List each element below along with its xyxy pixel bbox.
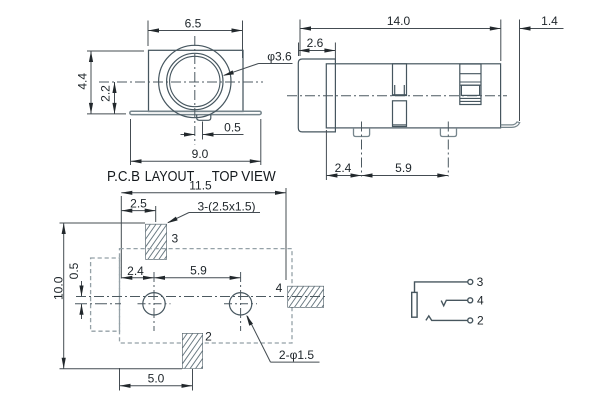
- svg-text:0.5: 0.5: [67, 262, 81, 279]
- svg-text:2.4: 2.4: [335, 161, 352, 175]
- side view: dim 14.0 extension lines: [299, 20, 301, 57]
- front view: dim 4.4 extension lines: [87, 50, 144, 52]
- pcb: hole centerline crosses: [138, 303, 171, 305]
- side view: pad centerlines: [361, 122, 363, 177]
- svg-text:VIEW: VIEW: [241, 169, 276, 185]
- side view: dim 2.6 extension lines: [298, 43, 300, 57]
- side view: lower contact slot: [393, 101, 407, 127]
- svg-text:2.4: 2.4: [127, 264, 144, 278]
- pcb: dim 11.5 extension lines: [120, 196, 122, 279]
- pcb: dim 5.0 extension lines: [119, 368, 121, 391]
- svg-text:P.C.B: P.C.B: [107, 169, 140, 185]
- schematic: terminal 2 circle: [468, 318, 473, 323]
- front view: outer bezel circle: [159, 45, 231, 117]
- side view: body: [326, 64, 500, 128]
- pcb: dim 10.0: [63, 223, 65, 369]
- front view: dim 0.5 extension line: [202, 122, 204, 140]
- front view: dim 9.0 extension lines: [130, 119, 132, 165]
- schematic: terminal 3 circle: [468, 279, 473, 284]
- pcb: main horizontal centerline: [76, 296, 327, 298]
- side view: dim 1.4 outside arrow: [520, 26, 531, 30]
- front view: dim 9.0: [131, 160, 261, 162]
- svg-text:2: 2: [477, 314, 484, 328]
- pcb: hole 2: [229, 293, 251, 315]
- side view: dim 2.4 and 5.9: [326, 175, 448, 177]
- svg-text:1.4: 1.4: [541, 14, 558, 28]
- pcb: dim 11.5: [121, 192, 286, 194]
- svg-text:2.2: 2.2: [99, 85, 113, 102]
- side view: dim 14.0: [300, 28, 501, 30]
- pcb: dim 2.4 and 5.9: [121, 277, 240, 279]
- svg-text:3-(2.5x1.5): 3-(2.5x1.5): [197, 199, 255, 213]
- svg-text:0.5: 0.5: [224, 120, 241, 134]
- svg-text:LAYOUT: LAYOUT: [145, 169, 195, 185]
- side view: switch contact stack: [460, 64, 481, 105]
- side view: left solder pad: [354, 128, 370, 137]
- pcb: pad 3 hatched: [120, 224, 200, 260]
- svg-text:4: 4: [477, 294, 484, 308]
- front view: mounting flange bar: [130, 111, 261, 114]
- svg-text:3: 3: [171, 232, 178, 246]
- svg-text:9.0: 9.0: [192, 147, 209, 161]
- pcb: dim 2.5: [121, 210, 155, 212]
- front view: bottom boss: [197, 115, 211, 121]
- pcb: dim 5.0: [120, 385, 193, 387]
- front view: label phi 3.6 with leader: [259, 63, 293, 65]
- svg-text:2: 2: [205, 330, 212, 344]
- pcb: label 2-phi1.5 with leader: [271, 361, 320, 363]
- pcb: dim 0.5 arrows: [81, 281, 83, 297]
- schematic: wire to terminal 3: [415, 282, 468, 293]
- svg-text:5.9: 5.9: [395, 161, 412, 175]
- svg-text:3: 3: [477, 275, 484, 289]
- front view: vertical centerline: [194, 36, 196, 145]
- side view: right bent pin foot: [501, 122, 520, 128]
- svg-text:5.0: 5.0: [148, 372, 165, 386]
- svg-text:2.5: 2.5: [130, 196, 147, 210]
- schematic: terminal 4 circle: [468, 298, 473, 303]
- svg-text:10.0: 10.0: [52, 276, 66, 300]
- schematic: contact peak and wire to terminal 2: [426, 316, 468, 321]
- pcb: body dashed outline: [120, 249, 293, 343]
- pcb: holes centerline left segment: [75, 303, 121, 305]
- side view: right solder pad: [440, 128, 456, 137]
- front view: horizontal centerline: [99, 81, 263, 83]
- svg-text:4: 4: [276, 281, 283, 295]
- front view: dim 0.5: [181, 134, 196, 136]
- pcb: pad 4 hatched: [272, 286, 348, 308]
- side view: horizontal centerline: [287, 95, 507, 97]
- svg-text:4.4: 4.4: [76, 73, 90, 90]
- side view: dim 2.4 5.9 extension line: [325, 130, 327, 180]
- svg-text:φ3.6: φ3.6: [267, 50, 292, 64]
- svg-text:2-φ1.5: 2-φ1.5: [279, 348, 314, 362]
- pcb: dim 10.0 extension lines: [60, 222, 146, 224]
- schematic: sleeve plug bar: [412, 292, 417, 317]
- schematic: contact V and wire to terminal 4: [441, 300, 467, 306]
- svg-text:TOP: TOP: [212, 169, 239, 185]
- side view: upper contact slot: [393, 64, 407, 96]
- svg-text:5.9: 5.9: [190, 264, 207, 278]
- svg-text:2.6: 2.6: [307, 36, 324, 50]
- svg-text:11.5: 11.5: [189, 179, 212, 193]
- front view: dim 6.5: [148, 30, 243, 32]
- front view: middle circle: [167, 53, 223, 109]
- pcb: pad 2 hatched: [157, 333, 237, 369]
- pcb: hole 1: [143, 293, 165, 315]
- side view: sleeve barrel: [298, 59, 335, 132]
- svg-text:14.0: 14.0: [387, 14, 411, 28]
- front view: dim 4.4: [90, 51, 92, 114]
- front view: dim 2.2: [114, 82, 116, 114]
- pcb: sleeve dashed outline: [91, 258, 120, 331]
- side view: dim 2.6: [299, 50, 336, 52]
- front view: dim 6.5 extension lines: [147, 21, 149, 47]
- side view: dim 1.4 extension line and tail: [519, 20, 521, 122]
- front view: body: [149, 50, 244, 111]
- front view: inner circle phi 3.6: [170, 56, 220, 106]
- svg-text:6.5: 6.5: [185, 16, 202, 30]
